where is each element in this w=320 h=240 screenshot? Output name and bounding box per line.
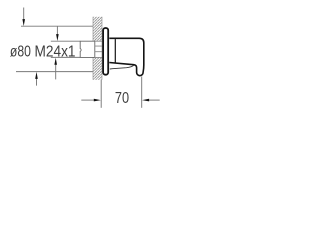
handle collar line — [114, 39, 116, 63]
thread through wall — [95, 41, 102, 57]
bottom dim right arrow (points left) — [142, 99, 160, 102]
arrow ø80 top (down) — [22, 8, 25, 27]
dimension extension line node: M24x1 top — [51, 40, 80, 42]
arrow M24x1 bottom (up) — [54, 58, 57, 80]
wall hatch upper — [93, 17, 102, 41]
valve body in wall — [80, 41, 95, 58]
handle outline — [109, 38, 144, 75]
bottom dimension 70: left extension — [100, 80, 102, 108]
dimension extension line node: M24x1 bottom — [51, 56, 80, 58]
wall hatch lower — [93, 57, 102, 79]
bottom dim left arrow (points right) — [81, 99, 101, 102]
arrow M24x1 top (down) — [56, 26, 59, 41]
wall left face line — [92, 17, 94, 80]
svg-text:M24x1: M24x1 — [35, 44, 76, 61]
dimension extension line node: ø80 bottom — [16, 71, 93, 73]
arrow ø80 bottom (up) — [35, 72, 38, 86]
bottom dimension 70: right extension — [141, 77, 143, 108]
handle neck lower line — [110, 65, 134, 69]
svg-text:70: 70 — [115, 90, 129, 107]
flange (escutcheon side view) — [103, 28, 108, 75]
wall right face line — [101, 17, 103, 80]
dimension extension line node: ø80 top — [21, 25, 93, 27]
svg-text:ø80: ø80 — [10, 44, 31, 61]
